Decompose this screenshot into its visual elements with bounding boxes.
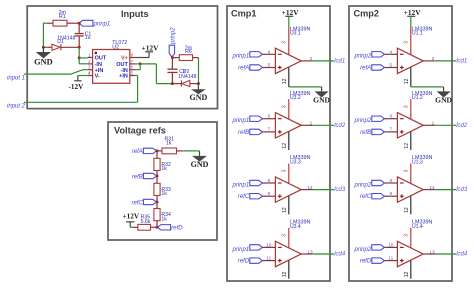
svg-text:10: 10 — [266, 242, 272, 248]
svg-text:8: 8 — [389, 178, 392, 184]
svg-text:refD: refD — [238, 259, 250, 265]
svg-text:U1.2: U1.2 — [412, 95, 423, 101]
svg-text:1k: 1k — [161, 191, 167, 197]
svg-text:prinp1: prinp1 — [232, 182, 250, 188]
svg-text:refC: refC — [360, 194, 372, 200]
svg-text:lcd2: lcd2 — [334, 123, 346, 129]
svg-text:lcd4: lcd4 — [456, 252, 468, 258]
svg-text:8: 8 — [267, 178, 270, 184]
svg-text:V-: V- — [95, 74, 100, 80]
svg-text:refB: refB — [360, 130, 371, 136]
svg-text:1k: 1k — [161, 166, 167, 172]
svg-text:5: 5 — [389, 62, 392, 68]
svg-text:GND: GND — [435, 95, 452, 104]
svg-text:12: 12 — [404, 207, 410, 213]
svg-text:input 1: input 1 — [7, 76, 25, 82]
svg-text:U3.4: U3.4 — [290, 224, 301, 230]
svg-text:3: 3 — [282, 234, 288, 237]
svg-text:input 2: input 2 — [7, 104, 26, 110]
svg-text:Inputs: Inputs — [121, 9, 149, 19]
svg-text:+IN: +IN — [119, 74, 128, 80]
svg-text:OUT: OUT — [95, 56, 107, 62]
svg-text:1u: 1u — [85, 35, 91, 41]
svg-text:prinp2: prinp2 — [171, 27, 177, 45]
svg-text:7: 7 — [267, 127, 270, 133]
svg-text:D1: D1 — [57, 39, 64, 45]
svg-text:U1.3: U1.3 — [412, 159, 423, 165]
svg-text:lcd3: lcd3 — [334, 187, 346, 193]
svg-text:prinp2: prinp2 — [354, 54, 372, 60]
svg-text:12: 12 — [282, 272, 288, 278]
svg-text:3: 3 — [404, 41, 410, 44]
svg-text:lcd4: lcd4 — [334, 252, 346, 258]
svg-text:6: 6 — [389, 114, 392, 120]
svg-text:refA: refA — [132, 149, 143, 155]
svg-text:6: 6 — [267, 114, 270, 120]
svg-text:Voltage refs: Voltage refs — [114, 126, 166, 136]
svg-text:U2: U2 — [112, 44, 119, 50]
svg-text:+12V: +12V — [404, 8, 422, 17]
svg-text:7: 7 — [389, 127, 392, 133]
svg-text:GND: GND — [313, 95, 330, 104]
svg-text:12: 12 — [282, 207, 288, 213]
svg-text:refA: refA — [360, 66, 371, 72]
svg-text:D2: D2 — [183, 69, 190, 75]
svg-text:GND: GND — [191, 160, 209, 169]
svg-text:GND: GND — [34, 57, 52, 66]
svg-text:refB: refB — [238, 130, 249, 136]
svg-text:U1.4: U1.4 — [412, 224, 423, 230]
svg-text:3: 3 — [404, 234, 410, 237]
svg-text:prinp1: prinp1 — [232, 54, 250, 60]
svg-text:refB: refB — [132, 174, 143, 180]
svg-text:3: 3 — [404, 105, 410, 108]
svg-text:refC: refC — [131, 200, 143, 206]
svg-text:prinp1: prinp1 — [93, 21, 111, 27]
svg-text:prinp1: prinp1 — [232, 247, 250, 253]
svg-text:R1: R1 — [59, 14, 66, 20]
svg-text:11: 11 — [266, 255, 271, 261]
svg-text:prinp2: prinp2 — [354, 247, 372, 253]
svg-text:refD: refD — [171, 226, 183, 232]
svg-text:12: 12 — [404, 272, 410, 278]
svg-text:3: 3 — [282, 105, 288, 108]
svg-text:lcd2: lcd2 — [456, 123, 468, 129]
svg-text:10: 10 — [388, 242, 394, 248]
svg-text:prinp2: prinp2 — [354, 182, 372, 188]
svg-text:prinp1: prinp1 — [232, 118, 250, 124]
svg-text:refA: refA — [238, 66, 249, 72]
svg-text:lcd3: lcd3 — [456, 187, 468, 193]
svg-text:11: 11 — [388, 255, 393, 261]
svg-text:prinp2: prinp2 — [354, 118, 372, 124]
svg-text:-12V: -12V — [69, 83, 85, 91]
svg-text:9: 9 — [267, 191, 270, 197]
svg-text:12: 12 — [404, 143, 410, 149]
svg-text:U3.2: U3.2 — [290, 95, 301, 101]
svg-text:+12V: +12V — [282, 8, 300, 17]
svg-text:R6: R6 — [185, 49, 192, 55]
svg-text:+12V: +12V — [142, 44, 160, 53]
svg-text:V+: V+ — [121, 56, 128, 62]
svg-text:1k: 1k — [166, 140, 172, 146]
svg-text:9: 9 — [389, 191, 392, 197]
svg-text:U3.3: U3.3 — [290, 159, 301, 165]
svg-text:12: 12 — [282, 78, 288, 84]
svg-text:+12V: +12V — [123, 212, 140, 220]
svg-text:lcd1: lcd1 — [334, 59, 345, 65]
svg-text:4: 4 — [267, 49, 270, 55]
svg-text:5.6k: 5.6k — [141, 219, 151, 225]
svg-text:refC: refC — [238, 194, 250, 200]
svg-text:U3.1: U3.1 — [290, 31, 301, 37]
svg-text:12: 12 — [282, 143, 288, 149]
svg-text:12: 12 — [404, 78, 410, 84]
svg-text:Cmp2: Cmp2 — [354, 9, 380, 19]
svg-text:GND: GND — [190, 93, 208, 102]
svg-text:3: 3 — [282, 169, 288, 172]
svg-text:1k: 1k — [161, 217, 167, 223]
svg-text:Cmp1: Cmp1 — [231, 9, 257, 19]
svg-text:5: 5 — [267, 62, 270, 68]
svg-text:3: 3 — [404, 169, 410, 172]
svg-text:3: 3 — [282, 41, 288, 44]
svg-text:refD: refD — [360, 259, 372, 265]
svg-text:lcd1: lcd1 — [456, 59, 467, 65]
svg-text:4: 4 — [389, 49, 392, 55]
svg-text:U1.1: U1.1 — [412, 31, 423, 37]
